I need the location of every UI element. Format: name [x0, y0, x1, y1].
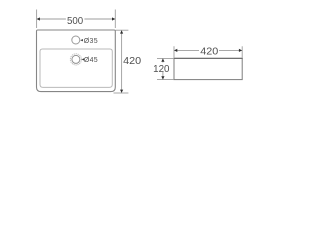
svg-text:Ø45: Ø45	[84, 57, 98, 64]
svg-text:Ø35: Ø35	[84, 38, 98, 45]
svg-text:500: 500	[67, 16, 83, 27]
svg-text:420: 420	[200, 46, 218, 57]
svg-text:120: 120	[153, 64, 170, 75]
svg-text:420: 420	[123, 56, 141, 67]
